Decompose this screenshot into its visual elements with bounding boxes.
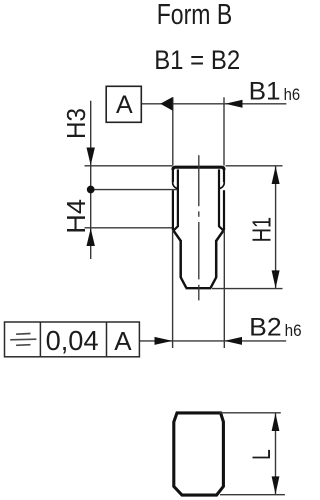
svg-text:h6: h6 [284,85,301,104]
part narrow left edge [179,240,182,278]
datum triangle A [160,97,172,111]
wire L bottom extension [220,494,285,496]
arrow L top [272,413,280,431]
arrow H4 up [87,228,95,246]
part bottom left chamfer [181,277,187,287]
wire B2 dimension/leader line [139,340,286,342]
svg-text:B1 = B2: B1 = B2 [154,45,240,75]
wire L top extension [220,412,281,414]
svg-text:H4: H4 [61,199,91,234]
arrow L bottom [272,476,280,494]
svg-text:L: L [248,449,276,460]
wire H1 dimension vertical [275,166,277,289]
part right inner line [219,169,224,230]
wire H dimension vertical [90,101,92,259]
part bottom right chamfer [211,277,217,287]
tolerance frame [5,322,140,357]
arrow B2 left [155,337,173,345]
part right relief notch [219,181,224,189]
part left inner line [173,169,178,230]
svg-text:H1: H1 [247,217,277,243]
part bottom edge [186,287,212,289]
wire H1 top extension [226,165,283,167]
svg-text:B2: B2 [249,313,282,341]
arrow B2 right [225,337,243,345]
wire L dimension vertical [275,413,277,495]
part left outer edge lower [172,190,174,230]
arrow B1 right [225,100,242,108]
bottom view octagon [174,413,224,495]
centerline [198,155,200,300]
parallelism symbol [10,334,36,346]
part right outer edge upper [223,169,225,182]
wire B2 extension left [172,231,174,348]
part right outer edge lower [223,190,225,230]
wire groove extension [91,189,177,191]
part right taper [216,230,224,241]
part top edge [173,167,224,170]
wire B1 extension line right [223,97,225,165]
part narrow right edge [215,240,218,278]
svg-text:A: A [114,326,132,356]
arrow H1 top [272,166,280,184]
svg-text:A: A [116,91,133,119]
wire B2 extension right [223,231,225,348]
svg-text:Form B: Form B [157,0,233,31]
node dot H3/H4 [87,186,95,194]
wire B1 extension line left [172,97,174,165]
wire H3 top extension [85,165,173,167]
arrow H3 down [87,148,95,166]
part left outer edge upper [172,169,174,182]
wire H4 bottom extension [85,227,173,229]
svg-text:0,04: 0,04 [46,325,99,356]
part left taper [173,230,181,241]
arrow H1 bottom [272,270,280,288]
part left relief notch [173,181,178,189]
svg-text:B1: B1 [249,77,281,105]
svg-text:h6: h6 [285,321,302,340]
wire H1 bottom extension [212,288,283,290]
wire B1 dimension/leader line [141,103,286,105]
svg-text:H3: H3 [61,108,91,139]
datum box A [106,86,141,122]
